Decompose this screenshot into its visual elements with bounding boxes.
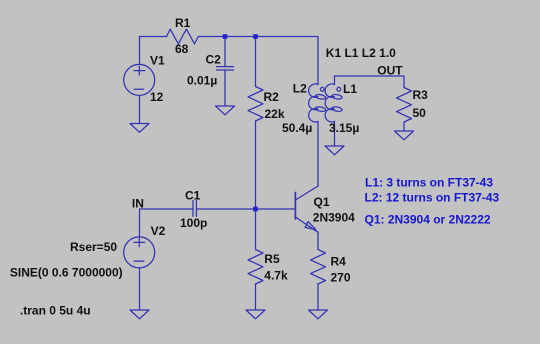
svg-text:4.7k: 4.7k (264, 268, 288, 282)
svg-text:K1 L1 L2 1.0: K1 L1 L2 1.0 (326, 46, 396, 60)
wire R3 bottom lead (403, 122, 405, 131)
voltage source V1 (124, 64, 155, 95)
resistor R4 (311, 250, 326, 285)
ground V2 (130, 310, 149, 319)
svg-text:SINE(0 0.6 7000000): SINE(0 0.6 7000000) (10, 265, 123, 279)
svg-text:R1: R1 (175, 16, 191, 30)
inductor L2 (309, 84, 326, 122)
wire Q1 emitter to R4 (317, 232, 319, 249)
svg-text:Q1: Q1 (314, 195, 330, 209)
svg-text:R4: R4 (331, 254, 347, 268)
capacitor C2 (217, 66, 234, 68)
wire C2 bottom lead (224, 70, 226, 106)
svg-text:L1: 3 turns on FT37-43: L1: 3 turns on FT37-43 (365, 176, 493, 190)
wire C1 to Q1 base (196, 208, 295, 210)
ground R3 (395, 131, 414, 140)
svg-text:L2: 12 turns on FT37-43: L2: 12 turns on FT37-43 (365, 191, 500, 205)
svg-text:.tran 0 5u 4u: .tran 0 5u 4u (20, 303, 91, 317)
svg-text:100p: 100p (180, 216, 207, 230)
svg-text:0.01µ: 0.01µ (187, 73, 217, 87)
svg-text:50: 50 (413, 106, 427, 120)
svg-text:L1: L1 (343, 82, 357, 96)
junction top rail at C2 (223, 34, 228, 39)
svg-text:68: 68 (175, 42, 189, 56)
svg-text:12: 12 (150, 90, 164, 104)
wire R2 bottom to base junction to R5 (255, 121, 257, 250)
svg-text:L2: L2 (293, 81, 307, 95)
wire C2 top lead (224, 37, 226, 67)
wire R5 bottom lead (255, 284, 257, 310)
svg-text:OUT: OUT (377, 64, 403, 78)
svg-text:22k: 22k (265, 107, 285, 121)
wire L2 bottom / Q1 collector (317, 121, 319, 186)
svg-text:IN: IN (132, 196, 144, 210)
inductor L1 (325, 84, 342, 122)
wire L1 top lead (334, 76, 336, 85)
svg-text:R2: R2 (264, 90, 280, 104)
voltage source V2 (124, 237, 155, 268)
junction top rail at R2 (253, 34, 258, 39)
svg-text:V1: V1 (150, 53, 165, 67)
svg-text:2N3904: 2N3904 (313, 211, 355, 225)
wire L1 bottom lead (334, 121, 336, 146)
svg-text:R3: R3 (413, 88, 429, 102)
ground R5 (246, 310, 265, 319)
ground R4 (309, 310, 328, 319)
resistor R5 (248, 250, 263, 285)
wire OUT net (335, 76, 405, 88)
svg-text:Rser=50: Rser=50 (70, 240, 117, 254)
junction base wire at R2/R5 (253, 207, 258, 212)
ground L1 (325, 146, 344, 155)
wire V1 bottom lead (139, 96, 141, 124)
ground V1 (130, 124, 149, 133)
wire V2 bottom lead (139, 268, 141, 310)
svg-text:50.4µ: 50.4µ (282, 121, 312, 135)
svg-text:V2: V2 (151, 224, 166, 238)
resistor R1 (167, 29, 199, 44)
svg-text:270: 270 (331, 271, 351, 285)
wire IN net: V2 corner to C1 (140, 209, 194, 237)
resistor R2 (248, 87, 263, 122)
wire R2 top lead (255, 37, 257, 87)
resistor R3 (397, 88, 412, 123)
ground C2 (216, 106, 235, 115)
svg-text:C1: C1 (185, 189, 201, 203)
svg-text:Q1: 2N3904 or 2N2222: Q1: 2N3904 or 2N2222 (365, 212, 491, 226)
svg-text:R5: R5 (264, 252, 280, 266)
svg-text:C2: C2 (206, 52, 222, 66)
wire top rail R1 to L2 corner (198, 37, 318, 85)
capacitor C1 (192, 201, 194, 217)
svg-text:3.15µ: 3.15µ (329, 121, 359, 135)
wire V1 top lead (139, 37, 141, 65)
transistor Q1 (295, 186, 318, 232)
wire R4 bottom lead (317, 284, 319, 310)
wire top rail V1 to R1 (140, 36, 167, 38)
